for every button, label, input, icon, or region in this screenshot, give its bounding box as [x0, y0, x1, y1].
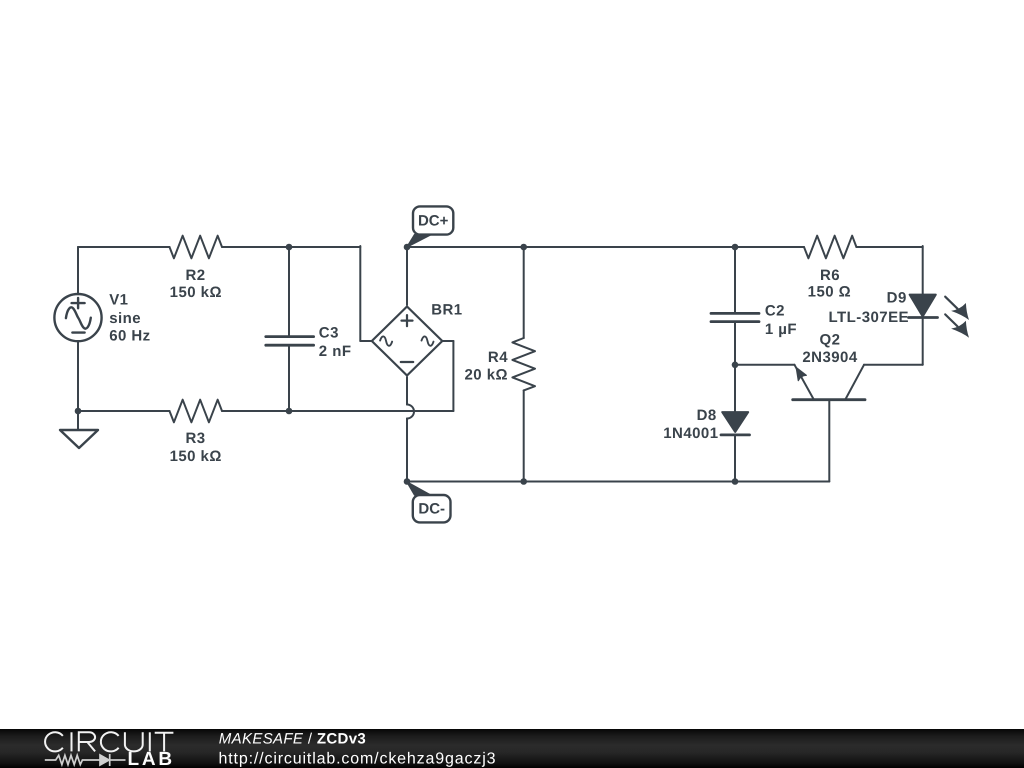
wire C3 top lead [288, 247, 290, 337]
resistor R6 [804, 236, 856, 259]
wire corner to Q2 collector [864, 364, 923, 366]
junction C3 top [286, 244, 293, 251]
svg-text:LAB: LAB [128, 749, 175, 768]
bridge rectifier BR1 [372, 307, 443, 376]
wire vertical up to bridge right arm [452, 341, 454, 411]
resistor R4 [512, 338, 535, 390]
wire into bridge right corner [442, 340, 453, 342]
diode D8 [721, 412, 750, 435]
svg-text:MAKESAFE / ZCDv3: MAKESAFE / ZCDv3 [219, 731, 366, 748]
labels [109, 267, 909, 465]
wire down to LED D9 [922, 246, 924, 295]
junction R4 top [520, 244, 527, 251]
wire LED D9 to corner [922, 318, 924, 365]
wire V1 bottom lead [77, 342, 79, 412]
wire V1 top lead [77, 247, 79, 294]
wire R2 right lead to corner above bridge-left [222, 246, 360, 248]
wire bottom AC rail left (to R3) [78, 410, 170, 412]
junction emitter node [732, 362, 739, 369]
footer bar [0, 729, 1024, 768]
wire R4 bottom lead [523, 390, 525, 481]
wire into bridge left corner [360, 340, 372, 342]
resistor R3 [170, 400, 223, 423]
junction D8 bottom [732, 478, 739, 485]
ground [60, 430, 98, 448]
resistor R2 [170, 236, 223, 259]
junction ground node [75, 408, 82, 415]
wire R6 right lead to corner [856, 246, 922, 248]
wire C2 bottom lead [734, 322, 736, 365]
wire D8 to bottom rail [734, 435, 736, 482]
node DC+ flag [407, 206, 453, 247]
wire bridge bottom corner to hop [406, 377, 408, 405]
wire DC+ node down to bridge top corner [406, 247, 408, 305]
capacitor C2 [711, 313, 759, 321]
wire node to D8 [734, 365, 736, 412]
transistor Q2 [793, 365, 865, 400]
wire emitter node to Q2 [735, 364, 795, 366]
wire hop over AC rail [407, 405, 414, 419]
LED D9 light arrow 2 [945, 314, 969, 337]
LED D9 light arrow 1 [945, 297, 969, 320]
wire C3 bottom lead [288, 345, 290, 411]
capacitor C3 [266, 337, 314, 346]
junction R4 bottom [520, 478, 527, 485]
junction C2 top [732, 244, 739, 251]
junction DC+ node [404, 244, 411, 251]
node DC- flag [407, 482, 451, 522]
wire hop to DC- node [406, 419, 408, 482]
LED D9 [909, 295, 938, 318]
svg-text:http://circuitlab.com/ckehza9g: http://circuitlab.com/ckehza9gaczj3 [219, 751, 497, 768]
wire top rail left (V1 to corner) [78, 246, 170, 248]
logo resistor-diode symbol [45, 754, 126, 766]
wire R4 top lead [523, 247, 525, 338]
junction DC- node [404, 478, 411, 485]
wire to ground [77, 411, 79, 430]
junction C3 bottom [286, 408, 293, 415]
CircuitLab logo wordmark CIRCUIT [45, 732, 173, 751]
voltage source V1 [54, 294, 101, 341]
wire bottom AC rail right (R3 to corner) [222, 410, 453, 412]
wire top rail from DC+ node to R6 [407, 246, 804, 248]
wire C2 top lead [734, 247, 736, 313]
wire Q2 base to bottom rail [828, 400, 830, 482]
wire vertical drop to bridge left arm [359, 246, 361, 341]
wire DC- bottom rail [407, 481, 829, 483]
